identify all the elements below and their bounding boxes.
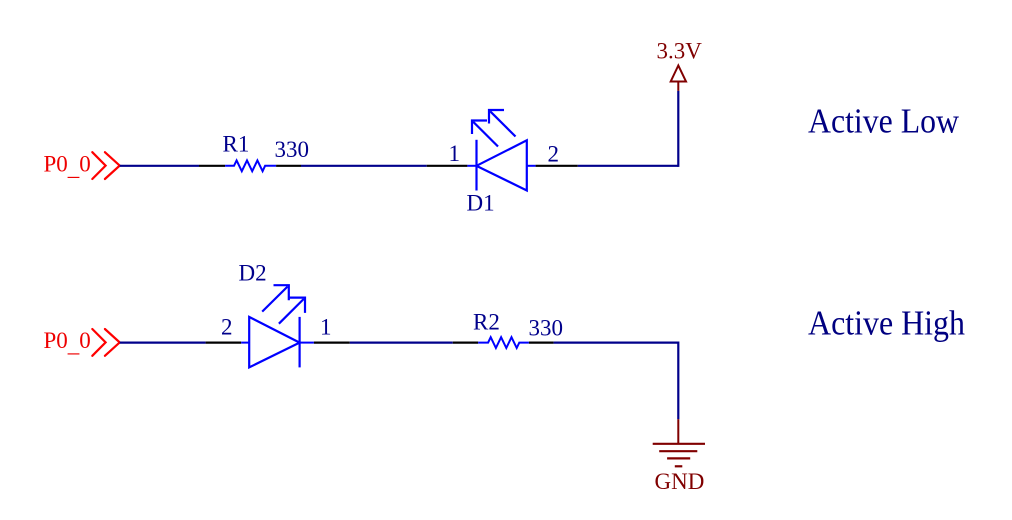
svg-text:1: 1 [320, 315, 332, 340]
svg-text:3.3V: 3.3V [657, 39, 703, 64]
svg-text:Active Low: Active Low [808, 102, 960, 141]
wire: vertical down to GND [677, 342, 679, 420]
port P0_0 (top) chevron symbol [92, 152, 119, 179]
port P0_0 (bottom) label [44, 328, 91, 357]
label R2 value 330 [529, 315, 564, 340]
LED D1 cathode bar [475, 140, 477, 191]
svg-text:R2: R2 [473, 310, 500, 335]
resistor R2 pin 1 (right, black) [529, 342, 554, 344]
LED D2 cathode bar [299, 317, 301, 368]
svg-text:2: 2 [221, 315, 233, 340]
LED D2 emission arrow a (upper-left) [262, 285, 289, 311]
wire: port to R1 (top) [120, 165, 199, 167]
ground symbol bar 3 [667, 457, 690, 459]
LED D1 emission arrow a (lower-left) [472, 121, 498, 147]
svg-text:P0_0: P0_0 [44, 151, 91, 180]
LED D2 pin 2 (black) [206, 342, 242, 344]
wire: port to D2 (bottom) [120, 342, 206, 344]
svg-text:Active High: Active High [808, 303, 965, 342]
label D2 designator [239, 261, 267, 286]
LED D2 pin 1 blue stub [300, 342, 314, 344]
LED D2 emission arrow b (lower-right) [279, 298, 305, 324]
power symbol 3.3V stem [677, 82, 679, 91]
LED D1 pin 2 blue stub [527, 165, 536, 167]
LED D1 triangle (anode, pointing left) [477, 140, 527, 190]
resistor R2 body (blue zigzag) [478, 337, 529, 348]
LED D1 pin 2 (black) [536, 165, 578, 167]
LED D2 pin 1 (black) [314, 342, 350, 344]
ground symbol stem [677, 419, 679, 444]
LED D2 triangle (anode, pointing right) [249, 317, 299, 368]
svg-text:P0_0: P0_0 [44, 328, 91, 357]
LED D2 pin 2 blue stub [241, 342, 249, 344]
label R1 designator [223, 131, 250, 156]
LED D1 emission arrow b (upper-right) [489, 110, 516, 137]
ground symbol bar 4 [675, 465, 683, 467]
pin number 2 (D2) [221, 315, 233, 340]
resistor R1 pin 2 (right, black) [276, 165, 301, 167]
resistor R1 pin 1 (left, black) [199, 165, 225, 167]
wire: D1 to corner (top) [578, 165, 679, 167]
pin number 2 (D1) [548, 141, 560, 166]
wire: vertical up to 3.3V [677, 91, 679, 167]
annotation Active Low [808, 102, 960, 141]
label GND [655, 469, 705, 494]
label R1 value 330 [275, 137, 310, 162]
resistor R2 pin 2 (left, black) [453, 342, 478, 344]
svg-text:330: 330 [529, 315, 564, 340]
pin number 1 (D1) [449, 141, 461, 166]
wire: R2 to corner (bottom) [554, 342, 679, 344]
svg-text:D2: D2 [239, 261, 267, 286]
power symbol 3.3V triangle [671, 66, 686, 82]
svg-text:D1: D1 [467, 191, 495, 216]
svg-text:R1: R1 [223, 131, 250, 156]
svg-text:GND: GND [655, 469, 705, 494]
LED D1 pin 1 blue stub [467, 165, 476, 167]
svg-text:330: 330 [275, 137, 310, 162]
resistor R1 body (blue zigzag) [225, 160, 276, 171]
ground symbol bar 2 [659, 450, 697, 452]
svg-text:1: 1 [449, 141, 461, 166]
label 3.3V [657, 39, 703, 64]
label D1 designator [467, 191, 495, 216]
ground symbol bar 1 [653, 443, 705, 445]
LED D1 pin 1 (black) [427, 165, 468, 167]
port P0_0 (bottom) chevron symbol [92, 329, 119, 356]
wire: D2 to R2 (bottom) [350, 342, 453, 344]
pin number 1 (D2) [320, 315, 332, 340]
label R2 designator [473, 310, 500, 335]
annotation Active High [808, 303, 965, 342]
port P0_0 (top) label [44, 151, 91, 180]
svg-text:2: 2 [548, 141, 560, 166]
wire: R1 to D1 (top) [301, 165, 427, 167]
